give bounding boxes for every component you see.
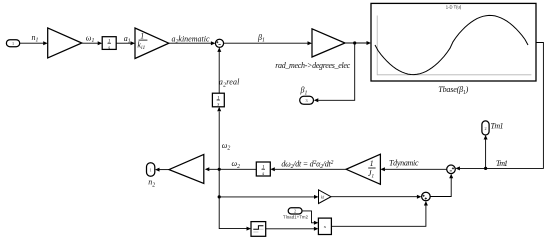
svg-text:1: 1 [217, 96, 220, 101]
svg-text:2: 2 [294, 209, 296, 214]
gain K1 (1/k_i1 triangle) [135, 28, 169, 59]
inport oval 1 (n1 source) [6, 40, 19, 47]
wire: junction J4 to gain KF [219, 195, 318, 199]
junction J1 [353, 41, 356, 44]
svg-text:3: 3 [306, 98, 308, 103]
outport oval 1 (n2) [147, 163, 155, 177]
svg-text:Tm1: Tm1 [491, 122, 504, 131]
svg-text:1: 1 [12, 41, 14, 46]
svg-text:1-D T(u): 1-D T(u) [446, 5, 462, 10]
wire domega2/dt: gain J1 to integrator I2 [270, 167, 346, 171]
integrator I1 (1/s) [102, 37, 116, 51]
sum S2 [447, 165, 456, 174]
saturation block SAT [251, 222, 266, 237]
svg-text:1: 1 [140, 31, 144, 40]
lookup table block Tbase [371, 3, 536, 81]
wire: junction J3 up to integrator I3 (a2real) [217, 107, 221, 170]
wire: gain KF to sum S3 [331, 195, 421, 199]
wire a2real: integrator I3 up to sum S1 [217, 47, 221, 93]
wire: junction J1 down to outport beta1 [314, 43, 355, 102]
wire: saturation SAT to product P1 bottom input [266, 227, 319, 231]
inport oval 2 (Tload1+Tm2) [288, 208, 302, 214]
product block P1 [318, 218, 331, 234]
svg-text:1: 1 [370, 159, 374, 168]
wire: lookup table output loop to sum S2 [455, 43, 543, 171]
svg-text:rad_mech->degrees_elec: rad_mech->degrees_elec [275, 61, 350, 70]
junction J3 [218, 168, 221, 171]
wire: junction J3 down and right to saturation [219, 169, 251, 230]
gain G1 (triangle) [48, 28, 82, 58]
gain KF (small triangle kf) [319, 190, 332, 204]
gain G2 (rad_mech to degrees_elec) [312, 29, 345, 57]
sum S3 [422, 192, 431, 201]
wire: junction J2 up to outport Tm1 [484, 135, 488, 168]
wire: inport Tload to product P1 top input [302, 211, 318, 225]
wire: product P1 to sum S3 [331, 201, 428, 226]
wire: gain G2 to lookup table [345, 41, 371, 45]
svg-text:1: 1 [150, 167, 152, 172]
wire a1: integrator I1 to gain K1 [116, 41, 135, 45]
svg-text:s: s [217, 103, 219, 108]
integrator I3 (a2real 1/s) [212, 93, 224, 107]
wire beta1: sum S1 to gain G2 [224, 41, 312, 45]
svg-text:s: s [262, 171, 264, 177]
svg-text:Tdynamic: Tdynamic [389, 159, 419, 168]
svg-text:Tload1+Tm2: Tload1+Tm2 [283, 214, 309, 219]
svg-text:2: 2 [484, 126, 486, 131]
wire Tdynamic: sum S2 to gain J1 [380, 167, 446, 171]
wire omega2: integrator I2 to gain G3 [205, 167, 256, 171]
sum S1 [215, 39, 223, 47]
gain 1/J1 (left-pointing triangle) [346, 154, 380, 184]
gain G3 (left-pointing triangle) [169, 154, 204, 183]
junction J4 (kf branch) [218, 195, 221, 198]
svg-text:s: s [108, 45, 110, 51]
outport oval 2 (Tm1) [482, 121, 489, 135]
wire: sum S3 up to sum S2 [430, 174, 453, 197]
outport oval 3 (beta1) [300, 96, 314, 104]
svg-text:1: 1 [262, 165, 265, 171]
wire a2kinematic: gain K1 to sum S1 [169, 41, 216, 45]
svg-text:Tm1: Tm1 [496, 159, 508, 168]
wire n1: inport to gain G1 [20, 41, 48, 45]
wire w1: gain G1 to integrator I1 [82, 41, 102, 45]
integrator I2 (1/s) [256, 162, 270, 177]
svg-text:1: 1 [108, 39, 111, 45]
wire: gain G3 to outport n2 [155, 168, 169, 172]
junction J2 (Tm1 branch) [484, 167, 487, 170]
